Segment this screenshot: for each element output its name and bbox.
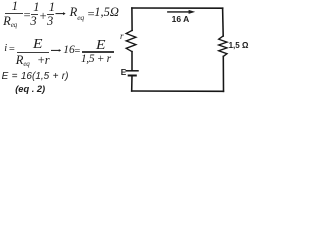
current arrow shaft xyxy=(168,11,190,13)
fraction 1/3 (first) bar xyxy=(31,14,38,15)
fraction 1/3 (first) denominator xyxy=(30,15,36,28)
fraction 1/Req numerator xyxy=(12,0,18,12)
fraction E/(Req+r) numerator xyxy=(33,37,42,51)
fraction E/(1,5+r) denominator xyxy=(81,54,111,66)
wire right upper xyxy=(222,8,225,36)
wire bottom xyxy=(132,90,224,92)
label 16 A (current) xyxy=(172,15,190,24)
label r (internal resistance) xyxy=(120,32,124,41)
fraction E/(Req+r) denominator xyxy=(16,54,50,67)
current arrow head xyxy=(189,10,196,14)
equals sign 3 xyxy=(8,45,15,56)
circuit schematic xyxy=(0,0,248,99)
fraction E/(1,5+r) bar xyxy=(82,51,114,52)
equation line 3: E = 16(1,5 + r) xyxy=(2,72,69,82)
resistor r zigzag xyxy=(126,30,136,51)
plus sign xyxy=(39,10,47,23)
fraction 1/3 (second) bar xyxy=(47,14,54,15)
battery long plate xyxy=(126,70,138,72)
wire top xyxy=(132,7,223,9)
fraction 1/3 (second) numerator xyxy=(49,1,55,14)
arrow right 2 (equation) xyxy=(52,49,62,52)
resistor 1,5 ohm zigzag xyxy=(219,36,227,56)
i variable xyxy=(4,44,7,55)
Req result xyxy=(70,6,84,19)
equals sign 4 xyxy=(74,47,81,58)
equals sign 1 xyxy=(23,9,31,22)
fraction 1/3 (second) denominator xyxy=(47,15,53,28)
wire left upper xyxy=(131,8,133,30)
equals sign 2 xyxy=(87,8,95,21)
fraction 1/Req bar xyxy=(5,13,24,14)
wire right lower xyxy=(222,56,224,91)
wire left lower xyxy=(131,76,133,92)
equation label (eq . 2) xyxy=(15,85,45,94)
arrow right 1 (equation) xyxy=(56,12,66,15)
value 1,5 ohm xyxy=(94,6,119,19)
battery short plate xyxy=(129,75,136,77)
label 1,5 ohm (resistor value) xyxy=(229,42,249,50)
fraction 1/3 (first) numerator xyxy=(33,1,39,14)
wire left middle xyxy=(131,52,133,71)
label E (emf) xyxy=(121,69,126,77)
16 value xyxy=(63,45,75,57)
fraction E/(1,5+r) numerator xyxy=(96,38,105,52)
fraction 1/Req denominator xyxy=(3,15,17,28)
fraction E/(Req+r) bar xyxy=(17,52,49,53)
